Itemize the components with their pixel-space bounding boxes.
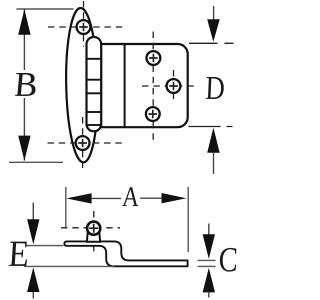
plate top hole cross — [149, 54, 158, 63]
dimension B top arrowhead — [18, 9, 30, 35]
knuckle line 3 — [87, 92, 102, 94]
knuckle line 2 — [87, 79, 102, 81]
dimension C bottom extension line — [198, 265, 216, 267]
pin mount neck — [87, 234, 100, 242]
dimension A left extension line — [65, 187, 67, 228]
dimension A right arrowhead — [162, 193, 187, 203]
centerline vertical through bottom oval hole — [82, 117, 84, 168]
pin centerline horizontal — [61, 227, 120, 229]
dimension D bottom extension line (dashed) — [189, 126, 233, 128]
dimension B bottom arrowhead — [18, 136, 30, 161]
top oval screw hole — [77, 20, 91, 34]
dimension A line (right segment) — [140, 197, 162, 199]
dimension C top extension line — [198, 259, 216, 261]
label D — [204, 77, 225, 99]
plate top screw hole — [147, 51, 161, 65]
dimension E line (lower tail) — [32, 292, 34, 299]
dimension E bottom arrowhead — [27, 267, 39, 292]
centerline vertical through top oval hole — [83, 1, 85, 47]
right mounting plate — [101, 44, 188, 127]
dimension B line (lower segment) — [23, 98, 25, 161]
plate middle screw hole — [167, 79, 181, 93]
centerline vertical through plate middle hole — [173, 70, 175, 102]
dimension D top extension line (dashed) — [189, 42, 234, 44]
label B — [13, 73, 37, 96]
dimension D line (lower tail) — [213, 153, 215, 174]
dimension D top arrowhead — [207, 19, 220, 42]
knuckle line 4 — [87, 111, 102, 113]
offset bracket (Z-profile sheet outline) — [64, 241, 187, 266]
plate middle hole cross — [169, 82, 178, 91]
dimension C line (upper tail) — [208, 224, 210, 236]
dimension C line (lower tail) — [208, 292, 210, 297]
dimension C top arrowhead — [203, 234, 215, 259]
dimension B line (upper segment) — [23, 9, 25, 70]
knuckle line 1 — [87, 58, 102, 60]
dimension A line (left segment) — [92, 197, 121, 199]
dimension D line (upper tail) — [213, 6, 215, 20]
dimension A right extension line — [187, 187, 189, 252]
dimension E top extension line — [26, 245, 64, 247]
bottom oval screw hole — [76, 136, 90, 150]
label E — [6, 242, 29, 266]
oval side flange — [65, 8, 100, 163]
dimension A left arrowhead — [66, 193, 91, 203]
dimension E top arrowhead — [27, 219, 39, 244]
plate fold line — [124, 44, 126, 127]
centerline vertical through plate left holes — [152, 32, 154, 142]
hinge pin (end view) — [87, 222, 100, 235]
centerline horizontal through bottom oval hole — [48, 142, 123, 144]
knuckle line 5 — [87, 124, 102, 126]
dimension C bottom arrowhead — [203, 268, 215, 293]
top oval hole cross — [79, 23, 88, 32]
centerline horizontal through top oval hole — [48, 26, 122, 28]
label C — [219, 248, 239, 272]
plate bottom hole cross — [149, 110, 158, 119]
dimension E bottom extension line — [24, 265, 115, 267]
barrel (hinge knuckles) — [87, 37, 102, 131]
bottom oval hole cross — [78, 139, 87, 148]
centerline horizontal through plate middle hole — [142, 85, 199, 87]
dimension B bottom extension line — [9, 161, 63, 163]
pin centerline vertical — [93, 211, 95, 254]
label A — [121, 187, 139, 206]
plate bottom screw hole — [146, 107, 160, 121]
dimension E line (upper tail) — [32, 203, 34, 221]
dimension D bottom arrowhead — [207, 128, 220, 153]
pin cross — [89, 224, 98, 233]
dimension B top extension line — [17, 8, 74, 10]
